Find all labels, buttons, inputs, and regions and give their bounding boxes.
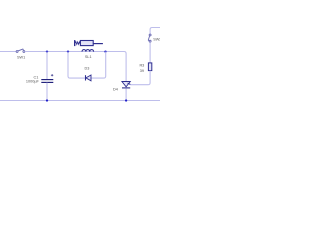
diode D3 bbox=[86, 75, 92, 81]
switch SW2 bbox=[148, 34, 151, 42]
svg-text:SW1: SW1 bbox=[17, 56, 25, 60]
wire R3 to gate bbox=[130, 71, 150, 85]
node junction SL1/D3 left bbox=[67, 50, 69, 52]
node junction bottom D4 bbox=[125, 99, 127, 101]
wire SW2 to R3 bbox=[149, 42, 151, 63]
wire bottom rail bbox=[0, 100, 160, 102]
solenoid SL1 plunger rod bbox=[93, 43, 103, 45]
wire C1 branch lower bbox=[46, 83, 48, 101]
thyristor D4 bbox=[122, 82, 131, 88]
svg-text:SW2: SW2 bbox=[153, 38, 160, 42]
solenoid SL1 plunger wall bbox=[74, 40, 76, 46]
solenoid SL1 spring bbox=[75, 42, 80, 45]
wire C1 branch upper bbox=[46, 52, 48, 80]
wire SW2 top feed bbox=[150, 28, 160, 35]
svg-text:R3: R3 bbox=[139, 63, 144, 67]
svg-text:1000µF: 1000µF bbox=[26, 80, 40, 84]
wire D4 cathode to bottom rail bbox=[125, 88, 127, 100]
solenoid SL1 plunger box bbox=[80, 41, 93, 46]
node junction bottom C1 bbox=[46, 99, 48, 101]
resistor R3 bbox=[148, 63, 151, 71]
svg-text:D3: D3 bbox=[84, 67, 89, 71]
svg-text:D4: D4 bbox=[113, 88, 118, 92]
wire top rail left feed bbox=[0, 51, 16, 53]
capacitor C1 bbox=[41, 74, 53, 82]
wire D3 loop right bbox=[91, 52, 106, 79]
wire D3 loop left bbox=[68, 52, 85, 79]
wire top rail from SW1 to D4 corner bbox=[25, 52, 126, 82]
svg-text:39: 39 bbox=[140, 69, 144, 73]
switch SW1 bbox=[16, 49, 25, 53]
svg-text:SL1: SL1 bbox=[85, 55, 92, 59]
node junction SL1/D3 right bbox=[104, 50, 106, 52]
inductor coil SL1 bbox=[82, 50, 94, 52]
node junction C1 tap bbox=[46, 50, 48, 52]
